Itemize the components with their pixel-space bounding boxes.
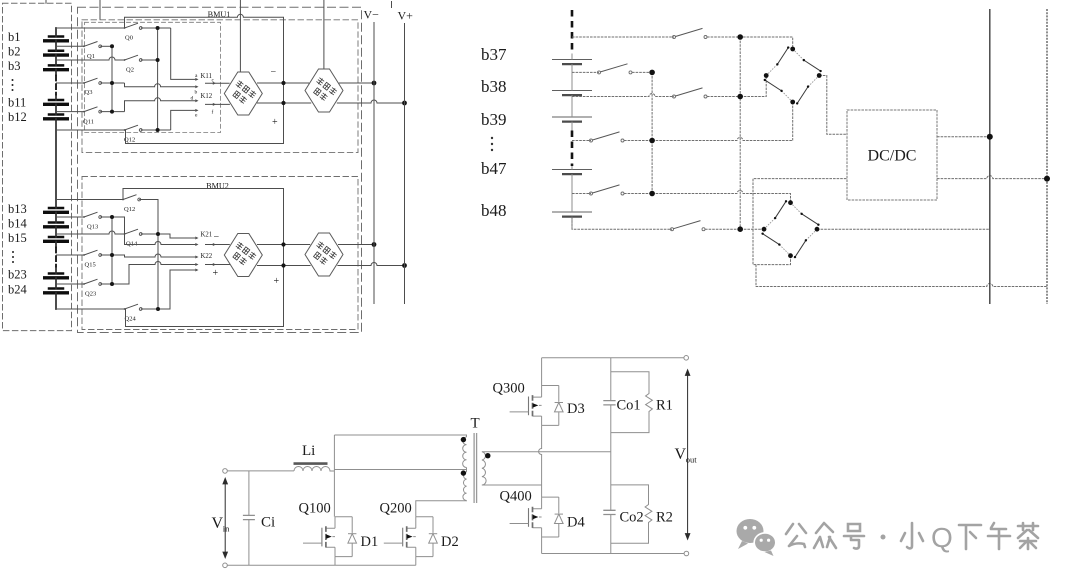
svg-text:b37: b37 (481, 45, 507, 64)
tap wire b24 bottom to Q24 (56, 308, 125, 310)
bus A' vertical BMU2 (157, 234, 159, 309)
output top rail (542, 357, 687, 359)
junction dot DC/DC out-/rail N (1044, 176, 1050, 182)
wire K21 upper pin from Q14 node (158, 234, 195, 238)
svg-text:b12: b12 (8, 110, 27, 124)
switch bridge 2 (761, 200, 819, 258)
wire Q2 terminal to bus A (141, 59, 158, 61)
svg-text:a: a (195, 73, 198, 79)
dashed gap in string between b3 and b11 (55, 76, 57, 95)
primary winding P1 (463, 437, 467, 468)
secondary winding (482, 452, 486, 485)
arrowhead K21 pin 1 (195, 237, 198, 240)
switch Q15 (83, 250, 102, 256)
hexagon U2 top control lead from figure top (323, 0, 325, 69)
tap wire b3/b11 to Q3 (56, 82, 84, 84)
ellipsis dots upper pack (12, 79, 14, 91)
V+ rail (404, 23, 406, 304)
MOSFET Q400 (510, 497, 564, 537)
switch Q1 (83, 42, 102, 48)
junction dot DC/DC out+/rail P (987, 134, 993, 140)
bridge1 right corner to DC/DC upper input (819, 76, 847, 135)
BMU1 inner switch-matrix dashed box (85, 22, 221, 132)
output bus upper segment (610, 358, 612, 401)
junction dot loop/U1 out+ (281, 101, 285, 105)
switch Q13 (83, 212, 102, 218)
battery b48 (552, 212, 592, 217)
bus A vertical BMU1 (157, 28, 159, 130)
glyph xiao (901, 523, 923, 548)
wire S38 to bus C1 (632, 71, 652, 73)
tap wire b14/b15 to Q14 (hop over bus B') (56, 231, 125, 234)
separator dot (881, 535, 886, 540)
svg-text:b1: b1 (8, 30, 21, 44)
svg-text:b23: b23 (8, 268, 27, 282)
battery top stub at figure top (45, 0, 47, 3)
svg-text:V+: V+ (398, 9, 414, 23)
svg-text:D1: D1 (361, 534, 379, 550)
ellipsis dots lower pack (12, 251, 14, 263)
row wire R3 (hop over bus C1) (572, 94, 674, 97)
glyph cha (1018, 523, 1038, 549)
junction dot R4/bus C1 (649, 138, 655, 144)
junction dot Q3/bus B (110, 81, 114, 85)
svg-text:V: V (675, 446, 687, 463)
svg-text:Q11: Q11 (83, 119, 94, 126)
wire S48 to bus C2 bottom node (705, 228, 740, 230)
junction dot U2/V+ (402, 101, 407, 106)
Q300 drain lead (541, 358, 543, 386)
svg-text:Co2: Co2 (620, 510, 644, 526)
wire S39 to bus C2 node (707, 96, 740, 98)
hexagon U1 top control lead from figure top (239, 0, 241, 72)
node vertical Li / primary / Q100 drain (333, 435, 335, 517)
switch S39 (673, 88, 708, 98)
svg-text:−: − (214, 232, 220, 243)
output rail P (989, 9, 991, 304)
switch Q0 (124, 23, 143, 29)
tap wire battery top to Q0 (56, 27, 125, 29)
WeChat icon small bubble (754, 533, 776, 556)
input terminal bottom (223, 563, 228, 568)
wire K22 upper pin from Q15 node (hop over bus A') (112, 254, 195, 257)
BMU1 dashed box (82, 20, 358, 153)
tap wire pack2 top to Q12' (56, 199, 123, 201)
svg-text:b39: b39 (481, 110, 507, 129)
junction dot U4/V+ (402, 263, 407, 268)
output terminal bottom (684, 551, 689, 556)
svg-text:Q12: Q12 (124, 206, 135, 213)
switch Q24 (124, 304, 143, 310)
svg-text:d: d (191, 96, 194, 102)
Q100 source tail (334, 557, 336, 566)
wire bus C2 node to bridge2 left corner (740, 228, 764, 230)
battery b37 (552, 60, 592, 65)
pin letters a b c d e f (191, 73, 215, 119)
svg-text:R1: R1 (656, 398, 673, 414)
svg-text:Q3: Q3 (85, 89, 93, 96)
svg-text:Co1: Co1 (617, 398, 641, 414)
secondary upper lead to output midpoint (482, 451, 611, 453)
control stub at x=100 (99, 0, 101, 20)
svg-text:Q24: Q24 (125, 316, 137, 323)
svg-text:K21: K21 (201, 232, 213, 239)
wire Q12 terminal to bus A and onward (141, 129, 171, 131)
BMU2 dashed box (82, 177, 358, 330)
row wire R6 from string bottom (572, 217, 672, 230)
arrowhead K12 pin e (195, 109, 198, 112)
Q300-Q400 midpoint vertical with hop over secondary lead (539, 425, 542, 497)
switch Q14 (124, 229, 143, 235)
secondary lower lead to Q300/Q400 midpoint (482, 484, 542, 486)
bridge1 bottom corner lead (792, 102, 794, 141)
svg-text:K11: K11 (201, 73, 212, 80)
transformer core bars (474, 433, 477, 503)
junction dot Q11/bus B (110, 110, 114, 114)
wire d: Q11 node jog to K12 upper pin (hop over bus A) (125, 98, 196, 112)
tap wire b12 bottom to Q12 (56, 129, 125, 131)
switch Q3 (83, 78, 102, 84)
battery b14 (45, 223, 68, 227)
tap wire b13/b14 to Q13 (56, 216, 84, 218)
junction dot loop/U3 out- (281, 242, 285, 246)
wire Q23 terminal to bus B' (100, 283, 112, 285)
wire a: bus A node down to K11 upper pin (171, 28, 196, 79)
row wire R4 (572, 140, 591, 142)
wire Q14 terminal to bus A' (141, 233, 158, 235)
battery b11 (45, 100, 68, 104)
transformer phase dot secondary (485, 453, 490, 458)
bus B vertical BMU1 (111, 46, 113, 111)
switch Q11 (83, 107, 102, 113)
bridge2 right corner to output rail P (817, 228, 990, 230)
capacitor Co1 plates (603, 401, 615, 405)
wire Q23 node to hexagon U3 lower input row (hop over bus A') (112, 262, 195, 285)
switch Q23 (83, 279, 102, 285)
tap wire b2/b3 to Q2 (hop over bus B) (56, 57, 125, 60)
battery string 2 connector stubs (571, 54, 573, 230)
battery b47 (552, 170, 592, 175)
primary upper lead (334, 435, 466, 437)
svg-text:Li: Li (302, 443, 315, 459)
svg-text:D4: D4 (567, 515, 585, 531)
ellipsis dots pack2 (491, 137, 493, 151)
transformer phase dot primary P1 (461, 437, 466, 442)
wire K21 to hexagon U3 input with plug arrow (205, 244, 230, 246)
switch S37 (673, 28, 708, 38)
output bottom rail (542, 553, 687, 555)
junction dot R6/bus C2 (737, 226, 743, 232)
input capacitor Ci leads (248, 471, 250, 565)
tap wire b11/b12 to Q11 (56, 111, 84, 113)
BMU1 pack-loop wire (Q0 pivot up, across, down right side, bottom back to Q12 pivot) (125, 14, 284, 143)
svg-text:Q23: Q23 (85, 291, 96, 298)
outer BMU dashed box (78, 7, 362, 332)
battery b23 (45, 274, 68, 278)
svg-text:b3: b3 (8, 59, 21, 73)
junction dot U4/V- (372, 242, 377, 247)
wire K11 to hexagon U1 input c with plug arrow (205, 82, 230, 84)
primary centre-tap wire (334, 468, 466, 473)
svg-text:K12: K12 (201, 93, 213, 100)
svg-text:K22: K22 (201, 253, 213, 260)
wire b: Q3 node jog to K11 lower pin (hop over bus A) (125, 83, 196, 87)
glyph wu (988, 523, 1010, 549)
wire K12 to hexagon U1 input f with plug arrow (205, 103, 230, 105)
DC/DC converter box (847, 110, 937, 200)
resistor R2 branch with zigzag (611, 485, 652, 543)
battery b24 (45, 289, 68, 293)
battery b2 (45, 51, 68, 55)
svg-text:b: b (195, 90, 198, 96)
wire e: Q12 node up to K12 lower pin (171, 110, 196, 130)
transformer phase dot primary P2 (461, 470, 466, 475)
resistor R1 branch with zigzag (611, 372, 653, 433)
wire S47b to bus C1 (624, 193, 652, 195)
battery b1 (45, 37, 68, 41)
junction dot Q2/bus A (156, 58, 160, 62)
junction dot Q23/bus B' (110, 282, 114, 286)
junction dot R5/bus C1 (649, 191, 655, 197)
stub between V- and V+ labels (391, 1, 393, 8)
switch Q12' (122, 195, 141, 201)
input bottom rail (225, 564, 416, 566)
inductor Li top bar (294, 462, 328, 465)
svg-text:V: V (212, 515, 224, 532)
wire U2 to V+ rail (hop over V-) (337, 100, 405, 103)
wire K22 to hexagon U3 input with plug arrow (205, 264, 230, 266)
primary lower lead to Q200 drain (416, 501, 467, 517)
svg-text:Q400: Q400 (500, 489, 532, 505)
wire Q1 terminal to bus B (100, 45, 112, 47)
Vout measurement arrow (685, 369, 691, 541)
wire Q11 terminal through bus B junction (100, 111, 124, 113)
svg-text:Q0: Q0 (125, 35, 133, 42)
output terminal top (684, 356, 689, 361)
junction dot R2/bus C1 (649, 70, 655, 76)
battery string column wires lower pack (55, 213, 57, 310)
input terminal top (223, 469, 228, 474)
MOSFET Q200 (384, 517, 438, 557)
arrowhead K22 pin 1 (195, 256, 198, 259)
svg-text:b38: b38 (481, 77, 507, 96)
battery b13 (45, 208, 68, 212)
battery pack dashed box (3, 3, 72, 330)
MOSFET Q100 (303, 517, 357, 557)
svg-text:R2: R2 (656, 510, 673, 526)
svg-text:b15: b15 (8, 231, 27, 245)
wire U4 to V+ rail (hop over V-) (337, 263, 404, 266)
battery string column wires upper pack (55, 28, 57, 208)
hexagon U2 inter-group converter BMU1 (305, 69, 343, 112)
input top rail (225, 470, 294, 472)
BMU2 pack-loop wire (123, 189, 284, 327)
wire K22 lower pin from Q24 node (158, 270, 195, 309)
svg-text:b47: b47 (481, 159, 507, 178)
junction dot Q0/bus A (156, 26, 160, 30)
MOSFET Q300 (510, 386, 564, 426)
output bus lower segment (610, 515, 612, 554)
svg-text:out: out (686, 455, 698, 465)
wire U4 to V- rail (338, 244, 374, 246)
bus C1 vertical (651, 72, 653, 193)
battery b12 (45, 115, 68, 119)
svg-text:T: T (471, 416, 480, 432)
wire Q3 terminal through bus B junction (100, 82, 124, 84)
svg-text:+: + (272, 117, 278, 128)
wire Q24 terminal to bus A' (141, 308, 158, 310)
svg-text:D3: D3 (567, 401, 585, 417)
battery b39 (552, 117, 592, 122)
branch wire from bridge2 bottom to rail N (hop over rail P) (756, 265, 1047, 287)
glyph gong (786, 524, 806, 547)
svg-text:Q13: Q13 (87, 224, 98, 231)
svg-text:Q100: Q100 (299, 501, 331, 517)
junction dot Q1/bus B (110, 44, 114, 48)
arrowhead K22 pin 3 (195, 269, 198, 272)
svg-text:b11: b11 (8, 96, 26, 110)
DC/DC lower output to rail N (hop over rail P) (937, 176, 1047, 179)
wire Q15 terminal to bus B' (100, 254, 112, 256)
primary winding P2 (463, 472, 467, 501)
battery b38 (552, 91, 592, 96)
junction dot Q15/bus B' (110, 253, 114, 257)
svg-text:b13: b13 (8, 202, 27, 216)
arrowhead K12 pin d (195, 99, 198, 102)
battery b3 (45, 65, 68, 69)
svg-text:+: + (213, 268, 219, 279)
svg-text:b2: b2 (8, 45, 21, 59)
wire U3 out- to U4 (257, 244, 310, 246)
svg-text:Q200: Q200 (380, 501, 412, 517)
junction dot Q13/bus B' (110, 215, 114, 219)
bus C2 vertical (739, 37, 741, 229)
svg-text:Q2: Q2 (126, 67, 134, 74)
Vin measurement arrow (222, 477, 228, 559)
bus B' vertical BMU2 (111, 217, 113, 284)
glyph hao (844, 524, 864, 549)
switch S48 (671, 221, 706, 231)
junction dot U2/V- (372, 81, 377, 86)
svg-text:Q1: Q1 (87, 53, 95, 60)
switch bridge 1 (764, 46, 822, 104)
svg-text:D2: D2 (441, 534, 459, 550)
svg-text:b48: b48 (481, 201, 507, 220)
arrowhead K11 pin b (195, 85, 198, 88)
tap wire b23/b24 to Q23 (56, 283, 84, 285)
WeChat icon big bubble (737, 519, 764, 549)
svg-text:DC/DC: DC/DC (868, 148, 917, 165)
dashed gap in string between b15 and b23 (55, 248, 57, 267)
junction dot loop/U1 out- (281, 81, 285, 85)
wire U2 to V- rail (339, 82, 374, 84)
wire Q13 node to hexagon U3 input row (hop over bus A') (112, 217, 195, 245)
svg-text:V−: V− (364, 8, 380, 22)
junction dot loop/U3 out+ (281, 263, 285, 267)
wire U1 out+ to U2 (with node) (257, 102, 311, 104)
switch S47b (590, 185, 625, 195)
arrowhead K22 pin 2 (195, 263, 198, 266)
glyph zhong (814, 523, 836, 548)
wire bus C2 node to bridge1 left corner (740, 76, 766, 97)
hexagon U1 intra-group converter BMU1 (224, 72, 262, 115)
switch S47a (590, 132, 625, 142)
Q400 source tail (541, 537, 543, 554)
svg-text:+: + (274, 276, 280, 287)
wire S37 to bus C2 and diamond bridge 1 top (707, 37, 793, 49)
wire Q12' terminal to bus A' (139, 200, 158, 235)
arrowhead K21 pin 2 (195, 243, 198, 246)
wire U1 out- to U2 (with node) (257, 82, 309, 84)
junction dot Q14/bus A' (156, 232, 160, 236)
battery string 2 bold dashed top lead (571, 10, 574, 54)
glyph xia (959, 525, 981, 549)
svg-text:f: f (212, 109, 214, 116)
battery string 2 bold dashed mid gap (571, 131, 574, 167)
junction dot Q24/bus A' (156, 307, 160, 311)
row wire R5 (572, 193, 591, 195)
wire R4 bus C1 to bridge1 bottom (hop over bus C2) (652, 138, 793, 141)
DC/DC upper output to rail P (937, 136, 990, 138)
junction dot R1/bus C2 (737, 34, 743, 40)
arrowhead K11 pin a (195, 78, 198, 81)
Q200 source tail (415, 557, 417, 566)
wire Q0 terminal to bus A and onward (141, 27, 171, 29)
hexagon U4 inter-group converter BMU2 (305, 233, 343, 276)
wire S47a to bus C1 (624, 140, 652, 142)
svg-text:b24: b24 (8, 283, 28, 297)
hexagon U3 intra-group converter BMU2 (224, 234, 262, 277)
svg-text:Q: Q (931, 522, 953, 553)
junction dot R3/bus C2 (737, 94, 743, 100)
output rail N (1046, 9, 1048, 304)
junction dot Q12/bus A (156, 128, 160, 132)
svg-text:Ci: Ci (261, 515, 275, 531)
svg-text:Q300: Q300 (493, 381, 525, 397)
Ci plates (243, 515, 255, 519)
wire U3 out+ to U4 (257, 265, 311, 267)
switch S38 (598, 64, 633, 74)
switch Q12 (124, 125, 143, 131)
V- rail (373, 22, 375, 304)
battery b15 (45, 237, 68, 241)
row wire R2 (572, 71, 599, 73)
inductor Li winding (294, 467, 334, 472)
svg-text:BMU2: BMU2 (206, 182, 229, 191)
tap wire b1/b2 to Q1 (56, 45, 84, 47)
bridge2 bottom corner to DC/DC lower input (753, 179, 847, 265)
capacitor Co2 plates (603, 510, 615, 514)
svg-text:−: − (271, 67, 277, 78)
svg-text:Q15: Q15 (85, 262, 96, 269)
output bus middle segment (610, 405, 612, 510)
svg-text:in: in (223, 524, 230, 534)
wire R5 bus C1 to bridge2 top (hop over bus C2) (652, 191, 790, 203)
WeChat icon eyes (743, 526, 770, 542)
row wire R1 from string top (572, 36, 674, 38)
svg-text:b14: b14 (8, 217, 28, 231)
watermark text strokes (公众号·小Q下午茶) (786, 522, 1038, 553)
tap wire b15/b23 to Q15 (56, 254, 84, 256)
wire Q13 terminal to bus B' (100, 216, 112, 218)
svg-text:e: e (195, 113, 198, 119)
switch Q2 (124, 55, 143, 61)
